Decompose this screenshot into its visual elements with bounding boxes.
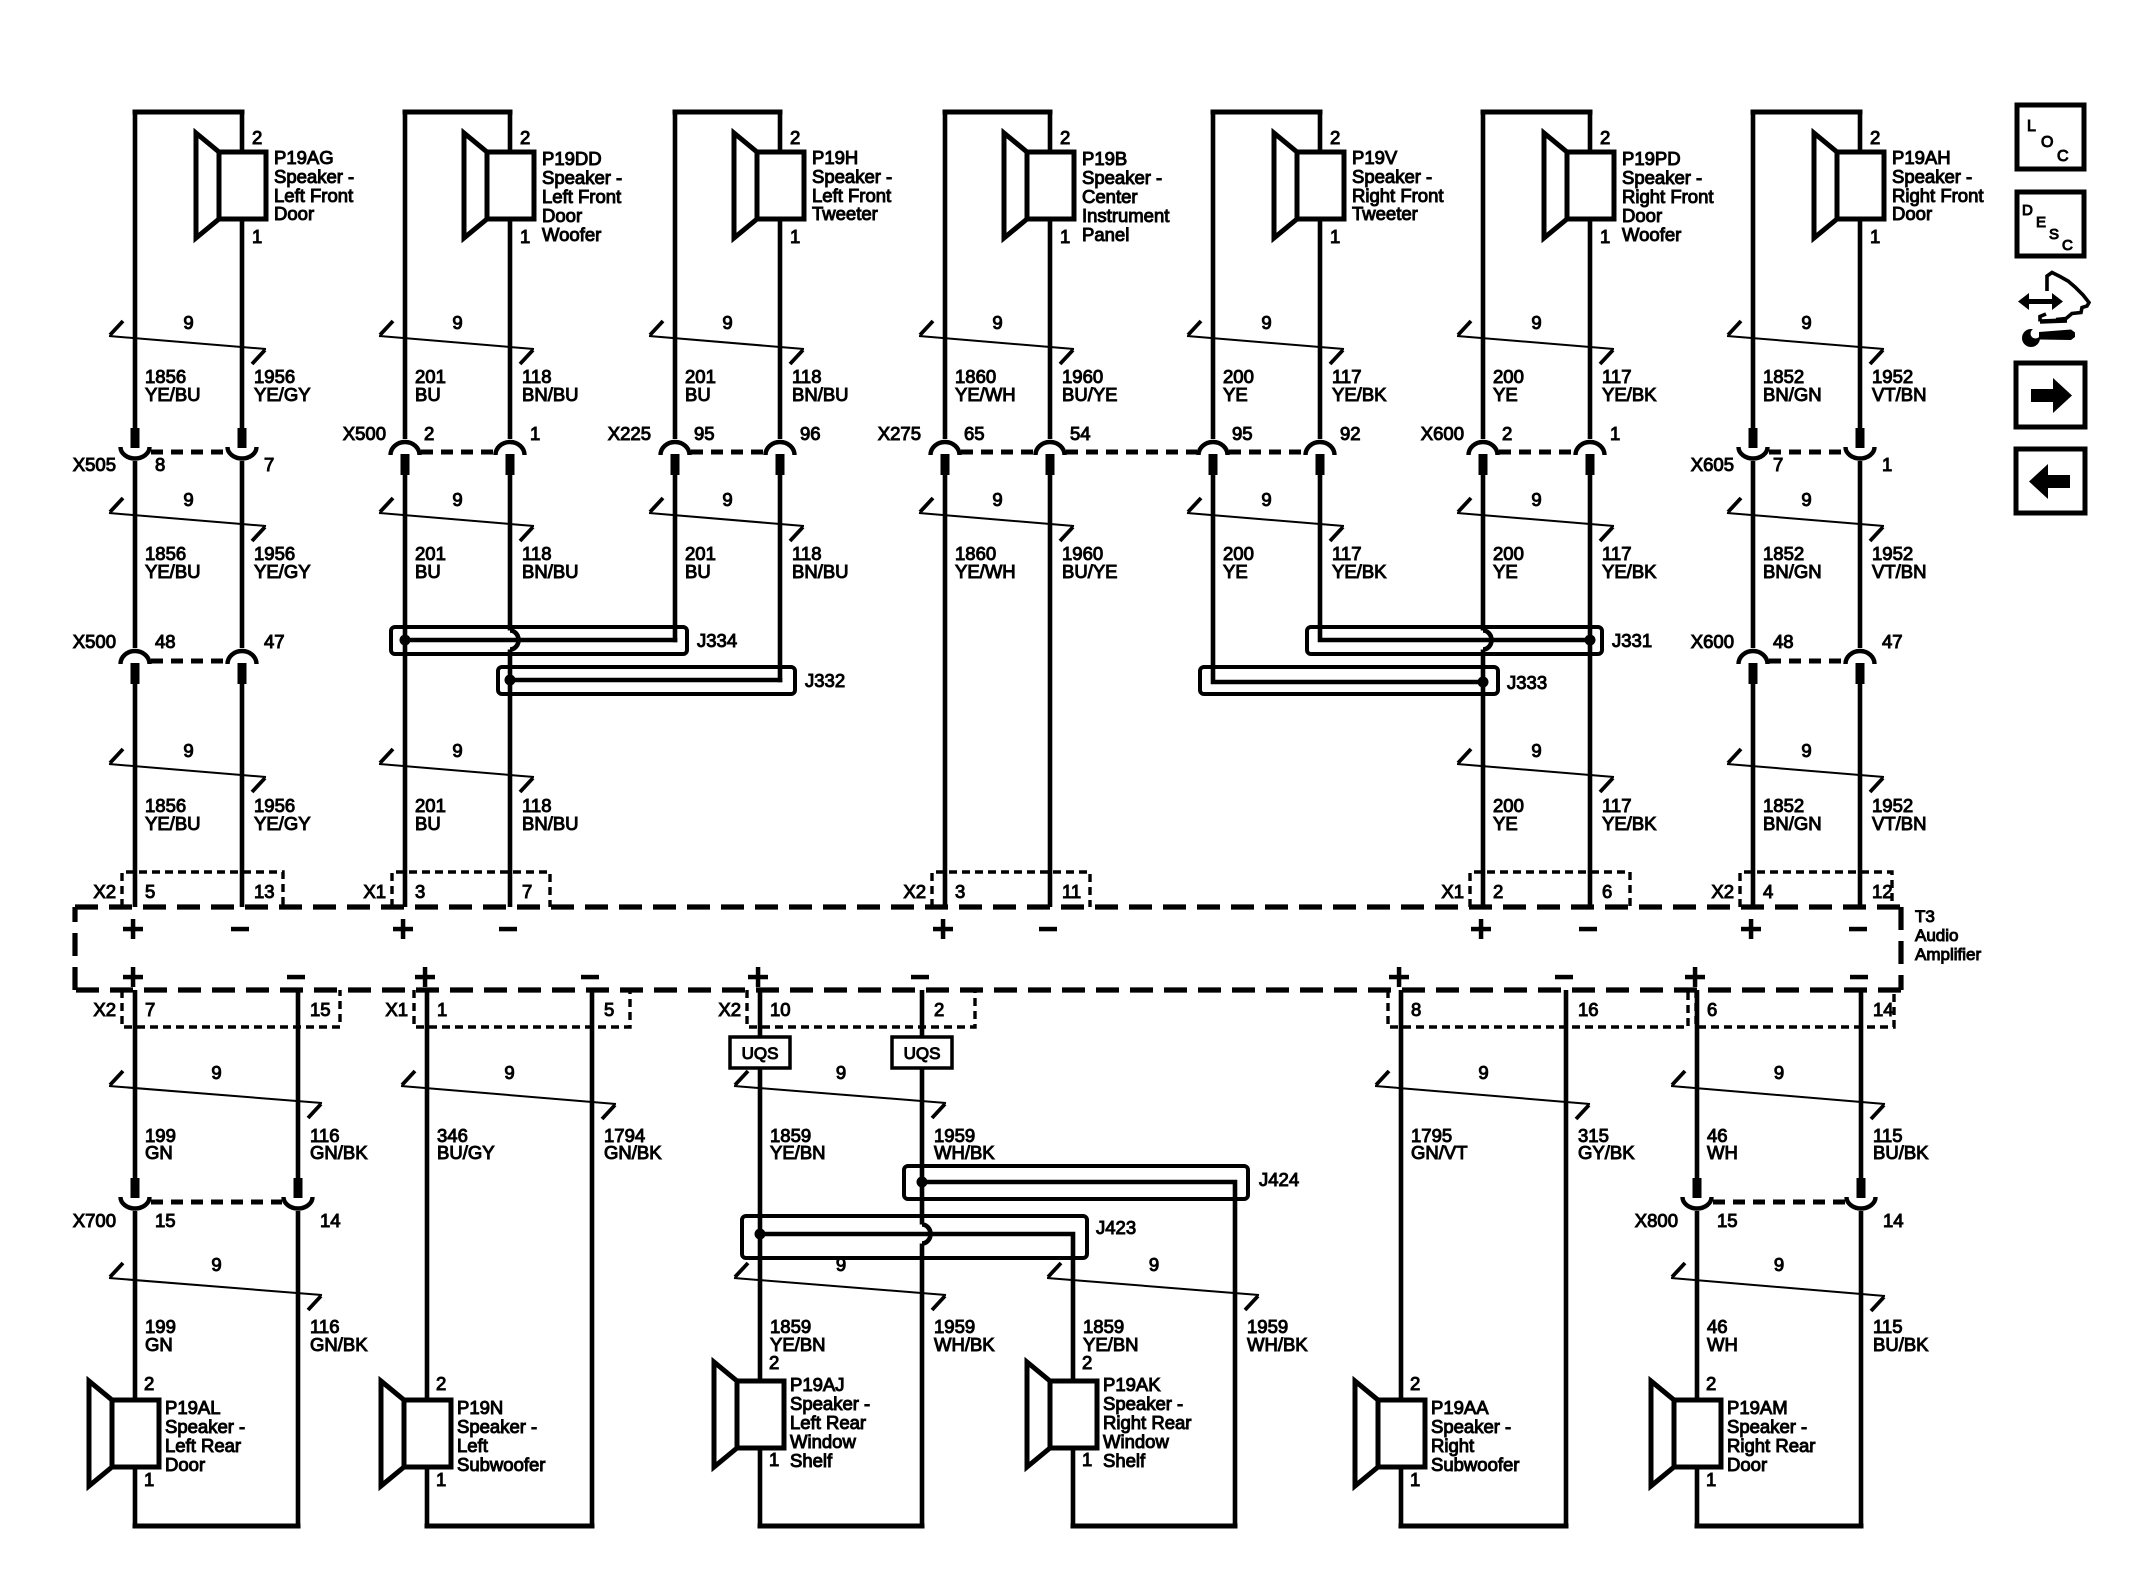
- svg-text:Subwoofer: Subwoofer: [457, 1454, 545, 1475]
- svg-text:Speaker -: Speaker -: [1352, 166, 1432, 187]
- svg-text:YE/GY: YE/GY: [254, 813, 311, 834]
- speaker P19B Speaker - Center Instrument Panel: [1004, 127, 1169, 247]
- audio amplifier T3 dashed box: [75, 907, 1901, 990]
- svg-text:9: 9: [1801, 312, 1811, 333]
- svg-text:2: 2: [790, 127, 800, 148]
- svg-text:1: 1: [1610, 423, 1620, 444]
- svg-text:1: 1: [1330, 226, 1340, 247]
- amplifier connector X2 pins 3 11 box: [932, 872, 1090, 907]
- svg-text:YE/GY: YE/GY: [254, 561, 311, 582]
- wire 201 BU X225 to J334 junction line: [673, 475, 678, 642]
- wire loop top P19V: [1213, 110, 1320, 115]
- icon wrench: [2022, 325, 2075, 347]
- svg-text:9: 9: [504, 1062, 514, 1083]
- connector X505 pins 8 7: [121, 428, 257, 459]
- svg-text:X500: X500: [73, 631, 116, 652]
- speaker P19AH Speaker - Right Front Door: [1814, 127, 1984, 247]
- connector X600 pins 48 47: [1739, 651, 1875, 684]
- UQS box right col3: [892, 1037, 952, 1068]
- svg-text:9: 9: [1531, 312, 1541, 333]
- wire 1952 VT/BN P19AH pin1 to X605 pin1: [1858, 112, 1863, 152]
- svg-text:Right Rear: Right Rear: [1103, 1412, 1191, 1433]
- junction J333 splice dot: [1478, 677, 1489, 688]
- svg-text:9: 9: [722, 312, 732, 333]
- svg-text:9: 9: [211, 1254, 221, 1275]
- svg-text:Center: Center: [1082, 186, 1138, 207]
- amplifier polarity + - for bottom pins 6/14: [1685, 967, 1868, 987]
- svg-text:Left Rear: Left Rear: [790, 1412, 866, 1433]
- junction J424 splice line to column4 right: [922, 1182, 1235, 1526]
- speaker P19AL Speaker - Left Rear Door: [89, 1373, 245, 1490]
- amplifier bottom connector pins 8 16 labels: [1411, 999, 1599, 1020]
- svg-text:5: 5: [604, 999, 614, 1020]
- amplifier bottom connector X1 pins 1 5 box: [414, 990, 630, 1027]
- gauge marker 9 column A upper: [109, 312, 266, 364]
- svg-text:GN: GN: [145, 1334, 173, 1355]
- gauge marker 9 column2: [401, 1062, 616, 1119]
- svg-text:J331: J331: [1612, 630, 1652, 651]
- svg-text:9: 9: [452, 312, 462, 333]
- connector X605 labels: [1691, 454, 1893, 475]
- svg-text:9: 9: [1531, 740, 1541, 761]
- hop of wire 200 over J331 line: [1483, 631, 1492, 650]
- wire label 46 WH lower col6: [1707, 1316, 1929, 1355]
- svg-text:Speaker -: Speaker -: [1431, 1416, 1511, 1437]
- gauge marker 9 column A lower: [109, 740, 266, 792]
- hop of wire 118 over J334 line: [510, 631, 519, 650]
- svg-text:9: 9: [211, 1062, 221, 1083]
- svg-text:2: 2: [144, 1373, 154, 1394]
- svg-text:P19V: P19V: [1352, 147, 1398, 168]
- svg-text:Woofer: Woofer: [542, 224, 601, 245]
- svg-text:BU: BU: [415, 813, 441, 834]
- svg-text:Panel: Panel: [1082, 224, 1129, 245]
- svg-text:YE/GY: YE/GY: [254, 384, 311, 405]
- svg-text:1: 1: [144, 1469, 154, 1490]
- svg-text:9: 9: [1478, 1062, 1488, 1083]
- wire label 1859 YE/BN upper col3: [770, 1125, 995, 1163]
- wire 115 BU/BK amplifier pin14 to X800 pin14: [1859, 990, 1864, 1178]
- svg-text:9: 9: [183, 489, 193, 510]
- wire 346 BU/GY amplifier X1 pin1 to P19N pin2: [425, 990, 430, 1400]
- wire loop bottom P19AL: [133, 1467, 138, 1526]
- svg-text:9: 9: [722, 489, 732, 510]
- gauge marker 9 column3 lower: [734, 1254, 946, 1310]
- junction J331 splice dot: [1585, 635, 1596, 646]
- connector X505 labels: [73, 454, 275, 475]
- wire 1795 GN/VT amplifier pin8 to P19AA pin2: [1399, 990, 1404, 1400]
- amplifier polarity + - for X2 4/12: [1741, 919, 1867, 939]
- svg-text:P19AA: P19AA: [1431, 1397, 1489, 1418]
- svg-text:2: 2: [1706, 1373, 1716, 1394]
- wire 117 YE/BK X600 to amplifier X1 pin6: [1588, 475, 1593, 907]
- wire label 200 YE upper E: [1223, 366, 1387, 405]
- svg-text:1: 1: [790, 226, 800, 247]
- svg-text:X800: X800: [1635, 1210, 1678, 1231]
- svg-text:8: 8: [1411, 999, 1421, 1020]
- junction J334 splice line: [405, 638, 677, 643]
- svg-text:92: 92: [1340, 423, 1361, 444]
- svg-text:YE/BK: YE/BK: [1602, 813, 1657, 834]
- svg-text:J334: J334: [697, 630, 737, 651]
- svg-text:1: 1: [1410, 1469, 1420, 1490]
- wire loop top P19B: [945, 110, 1050, 115]
- svg-text:X600: X600: [1691, 631, 1734, 652]
- amplifier bottom connector pins 10 2 labels: [718, 999, 944, 1020]
- wire label 1859 YE/BN lower col3: [770, 1316, 995, 1355]
- svg-text:Speaker -: Speaker -: [1727, 1416, 1807, 1437]
- gauge marker 9 column G lower: [1727, 740, 1884, 792]
- svg-text:9: 9: [1149, 1254, 1159, 1275]
- svg-text:X2: X2: [903, 881, 926, 902]
- wire 1852 BN/GN X600 to amplifier X2 pin4: [1751, 684, 1756, 907]
- gauge marker 9 column B middle: [379, 489, 534, 541]
- svg-text:Right Front: Right Front: [1622, 186, 1714, 207]
- svg-text:9: 9: [992, 312, 1002, 333]
- svg-text:YE/BK: YE/BK: [1332, 384, 1387, 405]
- svg-text:T3: T3: [1915, 907, 1935, 926]
- amplifier connector X2 pins 4 12 labels: [1711, 881, 1892, 902]
- svg-text:48: 48: [155, 631, 176, 652]
- svg-text:BN/BU: BN/BU: [792, 384, 849, 405]
- gauge marker 9 column F lower: [1457, 740, 1614, 792]
- wire label 201 BU upper B: [415, 366, 579, 405]
- gauge marker 9 column B lower: [379, 740, 534, 792]
- svg-text:1: 1: [1870, 226, 1880, 247]
- svg-text:Speaker -: Speaker -: [165, 1416, 245, 1437]
- svg-text:X225: X225: [608, 423, 651, 444]
- connector X600 pins 2 1: [1469, 442, 1605, 475]
- svg-text:Tweeter: Tweeter: [1352, 203, 1418, 224]
- svg-text:1: 1: [436, 1469, 446, 1490]
- amplifier polarity + - for X1 3/7: [393, 919, 517, 939]
- gauge marker 9 column5: [1375, 1062, 1590, 1119]
- svg-text:Shelf: Shelf: [1103, 1450, 1146, 1471]
- wire loop bottom P19N: [425, 1467, 430, 1526]
- wire label 200 YE middle E: [1223, 543, 1387, 582]
- svg-text:GN/VT: GN/VT: [1411, 1142, 1468, 1163]
- svg-text:X2: X2: [1711, 881, 1734, 902]
- svg-text:X1: X1: [363, 881, 386, 902]
- svg-text:X2: X2: [718, 999, 741, 1020]
- gauge marker 9 column1 upper: [109, 1062, 322, 1118]
- speaker P19AG Speaker - Left Front Door: [196, 127, 354, 247]
- amplifier polarity + - for X2 5/13: [123, 919, 249, 939]
- wire label 1859 YE/BN col4: [1083, 1316, 1308, 1355]
- svg-text:BU: BU: [685, 384, 711, 405]
- svg-text:9: 9: [992, 489, 1002, 510]
- svg-text:X600: X600: [1421, 423, 1464, 444]
- wire label 1852 BN/GN lower G: [1763, 795, 1926, 834]
- wire 46 WH amplifier pin6 to X800 pin15: [1695, 990, 1700, 1178]
- junction J332 splice line: [510, 678, 782, 683]
- svg-text:Subwoofer: Subwoofer: [1431, 1454, 1519, 1475]
- wire loop top P19DD: [405, 110, 510, 115]
- connector X275 labels: [878, 423, 1361, 444]
- svg-text:Window: Window: [1103, 1431, 1169, 1452]
- wire 1959 WH/BK amplifier X2 pin2 to J424 and loop with hop at J423: [920, 990, 925, 1037]
- svg-text:96: 96: [800, 423, 821, 444]
- svg-text:Instrument: Instrument: [1082, 205, 1169, 226]
- gauge marker 9 column E middle: [1187, 489, 1344, 541]
- icon vehicle with double arrow: [2018, 273, 2089, 322]
- wire 1952 VT/BN X605 to X600 pin47: [1858, 461, 1863, 648]
- speaker P19AM Speaker - Right Rear Door: [1651, 1373, 1815, 1490]
- svg-text:GN/BK: GN/BK: [604, 1142, 662, 1163]
- wire label 346 BU/GY col2: [437, 1125, 662, 1163]
- svg-text:1: 1: [1882, 454, 1892, 475]
- wire 200 YE X600 to amplifier X1 pin2 with hop at J331: [1481, 475, 1486, 631]
- svg-text:X1: X1: [385, 999, 408, 1020]
- svg-text:Door: Door: [1622, 205, 1662, 226]
- gauge marker 9 column D middle: [919, 489, 1074, 541]
- junction J333 splice box: [1200, 667, 1498, 694]
- icon previous arrow button: [2016, 449, 2085, 513]
- svg-text:9: 9: [1261, 489, 1271, 510]
- svg-text:6: 6: [1707, 999, 1717, 1020]
- amplifier polarity + - for X1 2/6: [1471, 919, 1597, 939]
- svg-text:4: 4: [1763, 881, 1773, 902]
- wire label 1852 BN/GN middle G: [1763, 543, 1926, 582]
- svg-text:GN: GN: [145, 1142, 173, 1163]
- svg-text:YE: YE: [1493, 813, 1518, 834]
- gauge marker 9 column D upper: [919, 312, 1074, 364]
- UQS box left col3: [730, 1037, 790, 1068]
- wire 118 BN/BU X225 to J332 junction line: [778, 475, 783, 682]
- wire 1856 YE/BU X500 to amplifier X2 pin5: [133, 684, 138, 907]
- gauge marker 9 column6 upper: [1671, 1062, 1885, 1119]
- junction J423 splice box: [742, 1216, 1087, 1258]
- svg-text:Speaker -: Speaker -: [542, 167, 622, 188]
- wire label 199 GN lower col1: [145, 1316, 368, 1355]
- svg-text:47: 47: [1882, 631, 1903, 652]
- svg-text:Speaker -: Speaker -: [1082, 167, 1162, 188]
- svg-text:S: S: [2049, 226, 2059, 243]
- svg-text:9: 9: [452, 740, 462, 761]
- svg-text:10: 10: [770, 999, 791, 1020]
- wire 118 BN/BU X500 to junction J332 with hop at J334: [508, 475, 513, 631]
- svg-text:1: 1: [1600, 226, 1610, 247]
- svg-text:P19AM: P19AM: [1727, 1397, 1788, 1418]
- svg-text:J332: J332: [805, 670, 845, 691]
- svg-text:Door: Door: [1727, 1454, 1767, 1475]
- gauge marker 9 column F upper: [1457, 312, 1614, 364]
- wire 46 WH X800 to P19AM pin2: [1695, 1211, 1700, 1400]
- wire 117 YE/BK P19PD pin1 to X600 pin1: [1588, 112, 1593, 152]
- wire 118 BN/BU P19H pin1 to X225 pin96: [778, 112, 783, 152]
- svg-text:2: 2: [424, 423, 434, 444]
- wire 1960 BU/YE P19B pin1 to X275 pin54: [1048, 112, 1053, 152]
- svg-text:Audio: Audio: [1915, 926, 1958, 945]
- svg-text:BN/BU: BN/BU: [792, 561, 849, 582]
- wire label 201 BU middle C: [685, 543, 849, 582]
- speaker P19H Speaker - Left Front Tweeter: [734, 127, 892, 247]
- svg-text:BU/BK: BU/BK: [1873, 1142, 1929, 1163]
- svg-text:2: 2: [436, 1373, 446, 1394]
- svg-text:1: 1: [1060, 226, 1070, 247]
- amplifier connector X2 pins 5 13 labels: [93, 881, 274, 902]
- junction J334 splice box: [391, 627, 687, 654]
- connector X225 pins 95 96: [661, 442, 795, 475]
- svg-text:Speaker -: Speaker -: [790, 1393, 870, 1414]
- gauge marker 9 column G upper: [1727, 312, 1884, 364]
- wire 201 BU P19DD pin2 to X500 pin2: [403, 112, 408, 439]
- wire label 1852 BN/GN upper G: [1763, 366, 1926, 405]
- wire loop top P19PD: [1483, 110, 1590, 115]
- svg-text:1: 1: [520, 226, 530, 247]
- svg-text:BU: BU: [415, 561, 441, 582]
- svg-text:J424: J424: [1259, 1169, 1299, 1190]
- svg-text:1: 1: [1706, 1469, 1716, 1490]
- svg-text:GN/BK: GN/BK: [310, 1142, 368, 1163]
- svg-text:47: 47: [264, 631, 285, 652]
- svg-text:2: 2: [1410, 1373, 1420, 1394]
- connector X600 2 1 labels: [1421, 423, 1621, 444]
- connector X500 48 47 labels: [73, 631, 285, 652]
- svg-text:14: 14: [320, 1210, 341, 1231]
- amplifier connector X1 pins 3 7 labels: [363, 881, 532, 902]
- svg-text:BU/YE: BU/YE: [1062, 384, 1118, 405]
- gauge marker 9 column B upper: [379, 312, 534, 364]
- svg-text:1: 1: [530, 423, 540, 444]
- svg-text:9: 9: [1801, 489, 1811, 510]
- wire label 1860 YE/WH middle D: [955, 543, 1118, 582]
- svg-text:WH: WH: [1707, 1142, 1738, 1163]
- svg-text:65: 65: [964, 423, 985, 444]
- gauge marker 9 column C middle: [649, 489, 804, 541]
- wire label 1860 YE/WH upper D: [955, 366, 1118, 405]
- svg-text:Window: Window: [790, 1431, 856, 1452]
- wire 1856 YE/BU P19AG pin2 to X505 pin8: [133, 112, 138, 428]
- speaker P19AK Speaker - Right Rear Window Shelf: [1027, 1352, 1191, 1471]
- svg-text:BN/GN: BN/GN: [1763, 384, 1822, 405]
- svg-text:X2: X2: [93, 881, 116, 902]
- svg-text:X605: X605: [1691, 454, 1734, 475]
- svg-text:Shelf: Shelf: [790, 1450, 833, 1471]
- wire 118 BN/BU P19DD pin1 to X500 pin1: [508, 112, 513, 152]
- svg-text:O: O: [2041, 134, 2053, 151]
- junction J424 splice box: [904, 1166, 1248, 1199]
- gauge marker 9 column G middle: [1727, 489, 1884, 541]
- svg-text:14: 14: [1873, 999, 1894, 1020]
- amplifier bottom connector X2 pins 7 15 box: [122, 990, 340, 1027]
- svg-text:BU: BU: [415, 384, 441, 405]
- amplifier bottom connector X2 pins 10 2 box: [747, 990, 975, 1027]
- svg-text:2: 2: [1330, 127, 1340, 148]
- amplifier connector X1 pins 3 7 box: [392, 872, 550, 907]
- svg-text:C: C: [2062, 237, 2073, 254]
- svg-text:9: 9: [452, 489, 462, 510]
- svg-text:J423: J423: [1096, 1217, 1136, 1238]
- svg-text:2: 2: [1870, 127, 1880, 148]
- wire 200 YE P19V pin2 to X275 pin95: [1211, 112, 1216, 439]
- wire 115 BU/BK X800 to P19AM pin1 loop: [1859, 1211, 1864, 1526]
- wire 1952 VT/BN X600 to amplifier X2 pin12: [1858, 684, 1863, 907]
- svg-text:Right: Right: [1431, 1435, 1474, 1456]
- svg-text:YE: YE: [1493, 561, 1518, 582]
- svg-text:YE/BU: YE/BU: [145, 561, 201, 582]
- svg-text:2: 2: [252, 127, 262, 148]
- speaker P19PD Speaker - Right Front Door Woofer: [1544, 127, 1714, 247]
- svg-text:2: 2: [520, 127, 530, 148]
- svg-text:3: 3: [415, 881, 425, 902]
- svg-text:11: 11: [1062, 881, 1081, 902]
- svg-text:Left: Left: [457, 1435, 488, 1456]
- svg-text:15: 15: [1717, 1210, 1738, 1231]
- gauge marker 9 column4: [1047, 1254, 1259, 1310]
- svg-text:BN/BU: BN/BU: [522, 813, 579, 834]
- wire label 200 YE middle F: [1493, 543, 1657, 582]
- svg-text:1: 1: [437, 999, 447, 1020]
- svg-text:VT/BN: VT/BN: [1872, 561, 1926, 582]
- wire 1956 YE/GY P19AG pin1 to X505 pin7: [240, 112, 245, 152]
- svg-text:UQS: UQS: [904, 1044, 941, 1063]
- wire 1860 YE/WH X275 to amplifier X2 pin3: [943, 475, 948, 907]
- svg-text:7: 7: [522, 881, 532, 902]
- svg-text:P19N: P19N: [457, 1397, 503, 1418]
- svg-text:GY/BK: GY/BK: [1578, 1142, 1635, 1163]
- connector X700 pins 15 14: [121, 1178, 313, 1209]
- svg-text:Door: Door: [165, 1454, 205, 1475]
- wire 117 YE/BK P19V pin1 to X275 pin92: [1318, 112, 1323, 152]
- svg-text:BN/GN: BN/GN: [1763, 813, 1822, 834]
- svg-text:2: 2: [934, 999, 944, 1020]
- svg-text:P19PD: P19PD: [1622, 148, 1681, 169]
- amplifier connector X2 pins 4 12 box: [1740, 872, 1892, 907]
- svg-text:7: 7: [145, 999, 155, 1020]
- svg-text:YE: YE: [1493, 384, 1518, 405]
- wire 116 GN/BK X700 to P19AL pin1 loop: [296, 1211, 301, 1526]
- svg-text:Woofer: Woofer: [1622, 224, 1681, 245]
- hop of wire 1959 over J423 line: [922, 1225, 931, 1244]
- svg-text:1: 1: [252, 226, 262, 247]
- wire label 201 BU middle B: [415, 543, 579, 582]
- svg-text:UQS: UQS: [742, 1044, 779, 1063]
- svg-text:YE/WH: YE/WH: [955, 561, 1016, 582]
- svg-text:J333: J333: [1507, 672, 1547, 693]
- wire label 1856 YE/BU lower A: [145, 795, 311, 834]
- svg-text:2: 2: [769, 1352, 779, 1373]
- svg-text:8: 8: [155, 454, 165, 475]
- wire label 199 GN upper col1: [145, 1125, 368, 1163]
- svg-text:5: 5: [145, 881, 155, 902]
- svg-text:7: 7: [264, 454, 274, 475]
- gauge marker 9 column F middle: [1457, 489, 1614, 541]
- svg-text:2: 2: [1060, 127, 1070, 148]
- svg-text:YE/BU: YE/BU: [145, 813, 201, 834]
- svg-text:WH/BK: WH/BK: [1247, 1334, 1308, 1355]
- svg-text:7: 7: [1773, 454, 1783, 475]
- wire loop top P19AH: [1753, 110, 1860, 115]
- wire loop top P19AG: [135, 110, 242, 115]
- amplifier bottom connector pins 7 15 labels: [93, 999, 330, 1020]
- svg-text:3: 3: [955, 881, 965, 902]
- wire 1852 BN/GN X605 to X600 pin48: [1751, 461, 1756, 648]
- gauge marker 9 column E upper: [1187, 312, 1344, 364]
- wire label 201 BU lower B: [415, 795, 579, 834]
- svg-text:YE: YE: [1223, 561, 1248, 582]
- svg-text:16: 16: [1578, 999, 1599, 1020]
- wire loop bottom P19AM: [1695, 1467, 1700, 1526]
- amplifier label T3 Audio Amplifier: [1915, 907, 1981, 964]
- junction J332 splice box: [498, 667, 795, 694]
- svg-text:9: 9: [836, 1254, 846, 1275]
- amplifier connector X2 pins 5 13 box: [122, 872, 283, 907]
- svg-text:Speaker -: Speaker -: [1892, 166, 1972, 187]
- wire 1956 YE/GY X505 to X500 pin47: [240, 461, 245, 648]
- svg-text:X700: X700: [73, 1210, 116, 1231]
- wire 200 YE P19PD pin2 to X600 pin2: [1481, 112, 1486, 439]
